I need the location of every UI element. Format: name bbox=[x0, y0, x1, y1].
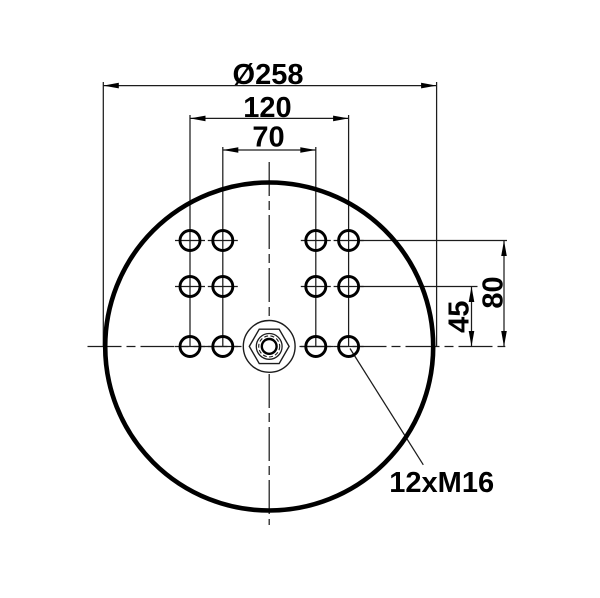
bolt hole row1 col2 bbox=[213, 231, 233, 251]
hole center marks row3 bbox=[175, 346, 205, 348]
arrow 70 right bbox=[300, 147, 316, 153]
center nut hexagon bbox=[249, 329, 289, 363]
svg-text:80: 80 bbox=[477, 276, 509, 308]
arrow 120 left bbox=[190, 116, 206, 122]
extension line col4 (120) bbox=[348, 115, 350, 347]
svg-text:12xM16: 12xM16 bbox=[389, 467, 494, 499]
svg-text:45: 45 bbox=[443, 301, 475, 333]
center nut washer circle bbox=[256, 334, 282, 360]
bolt hole row2 col1 bbox=[180, 277, 200, 297]
arrow Ø258 left bbox=[103, 83, 119, 89]
bolt hole row1 col3 bbox=[306, 231, 326, 251]
dimension line 120 bbox=[190, 117, 349, 119]
arrow Ø258 right bbox=[421, 83, 437, 89]
center nut thread dashed circle bbox=[259, 336, 280, 357]
arrow 45 top bbox=[469, 287, 475, 303]
horizontal centerline bbox=[88, 346, 506, 348]
bolt hole row2 col3 bbox=[306, 277, 326, 297]
hole center marks row1 bbox=[175, 240, 205, 242]
bolt hole row3 col2 bbox=[213, 337, 233, 357]
bolt hole row3 col1 bbox=[180, 337, 200, 357]
vertical centerline bbox=[268, 162, 270, 525]
extension line col3 (70) bbox=[315, 147, 317, 347]
hole center marks row2 bbox=[175, 286, 205, 288]
bolt hole row1 col1 bbox=[180, 231, 200, 251]
bolt hole row2 col2 bbox=[213, 277, 233, 297]
bolt hole row3 col4 bbox=[339, 337, 359, 357]
dimension line 45 bbox=[471, 287, 473, 347]
bolt hole row2 col4 bbox=[339, 277, 359, 297]
center nut outer circle bbox=[243, 321, 295, 373]
arrow 80 top bbox=[501, 241, 507, 257]
extension line row2 right (45) bbox=[358, 286, 478, 288]
leader line 12xM16 bbox=[350, 349, 423, 465]
svg-text:120: 120 bbox=[243, 92, 291, 124]
arrow 120 right bbox=[333, 116, 349, 122]
dimension line 80 bbox=[503, 241, 505, 347]
arrow 70 left bbox=[223, 147, 239, 153]
bolt hole row3 col3 bbox=[306, 337, 326, 357]
extension line col2 (70) bbox=[222, 147, 224, 347]
extension line col1 (120) bbox=[189, 115, 191, 347]
arrow 45 bottom bbox=[469, 331, 475, 347]
extension line right of Ø258 bbox=[436, 82, 438, 347]
extension line row1 right (80) bbox=[358, 240, 507, 242]
svg-text:Ø258: Ø258 bbox=[233, 59, 304, 91]
extension line left of Ø258 bbox=[102, 82, 104, 347]
arrow 80 bottom bbox=[501, 331, 507, 347]
svg-text:70: 70 bbox=[252, 122, 284, 154]
dimension line Ø258 bbox=[103, 85, 436, 87]
center nut bore circle bbox=[262, 339, 277, 354]
bolt hole row1 col4 bbox=[339, 231, 359, 251]
dimension line 70 bbox=[223, 149, 316, 151]
plate outline circle Ø258 bbox=[105, 183, 433, 511]
